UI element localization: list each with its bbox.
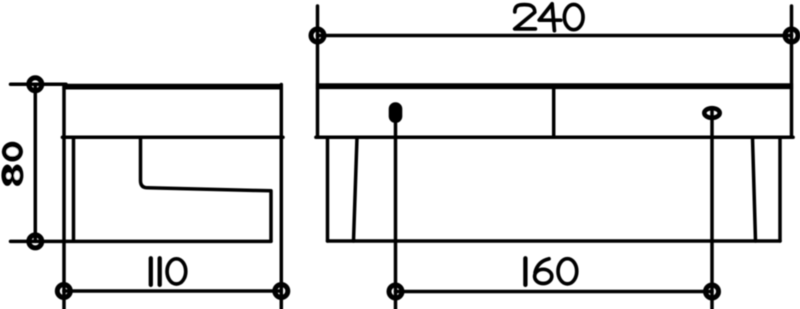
part: rail center divider — [552, 89, 556, 137]
roll holder body: right inner slant — [753, 137, 756, 241]
part: right edge / extension line down to 110 dim — [280, 85, 284, 309]
dim terminator circle 110 right — [275, 285, 288, 298]
extension line top of 80 dim — [11, 83, 67, 87]
dim terminator circle 110 left — [57, 285, 70, 298]
part: bottom edge + extension to 80 dim — [11, 240, 272, 244]
roll holder body: bottom edge — [328, 239, 781, 243]
label 160: digit 6 — [535, 259, 552, 284]
roll holder body: left inner slant — [354, 137, 358, 241]
dim terminator circle 240 left — [311, 29, 324, 42]
part: rail bottom line — [316, 136, 793, 140]
part: thick top shelf line — [62, 84, 283, 90]
dimension 110: dim line — [64, 289, 281, 293]
roll holder body: right outer edge — [778, 137, 782, 241]
label 80 (rotated): digit 8 left lobe body — [1, 165, 13, 186]
label 110: digit 0 — [167, 259, 186, 284]
dim terminator circle 80 top — [29, 78, 42, 91]
roll holder body: left outer edge — [326, 137, 330, 241]
label 110: digit 1 — [158, 258, 162, 285]
extension line right: stub above + down to rail bottom — [790, 6, 794, 137]
dimension 160: dim line — [396, 290, 713, 294]
dimension 240: dim line — [318, 34, 792, 38]
label 240: digit 4 — [539, 4, 561, 31]
dim terminator circle 160 right — [706, 285, 719, 298]
label 80 (rotated): digit 8 right hole — [14, 171, 20, 180]
dim terminator circle 160 left — [389, 285, 402, 298]
label 160: digit 0 — [558, 259, 577, 284]
extension line left: stub above + down to rail bottom — [316, 6, 320, 137]
label 110: digit 1 — [149, 258, 153, 285]
label 240: digit 0 — [564, 4, 583, 29]
extension line from right screw down to 160 dim — [710, 110, 714, 309]
label 80 (rotated): digit 0 hole — [6, 147, 18, 156]
dim terminator circle 240 right — [785, 29, 798, 42]
part: inner back plate line — [72, 137, 76, 241]
dimension 80: vertical dim line — [34, 84, 38, 241]
mounting screw right (ring) — [704, 108, 719, 118]
label 80 (rotated): digit 8 right lobe body — [11, 165, 23, 186]
label 240: digit 2 — [515, 5, 536, 29]
label 80 (rotated): digit 0 body — [2, 142, 23, 162]
extension line from left pin down to 160 dim — [394, 121, 398, 309]
part: rail bottom line — [62, 136, 283, 140]
part: J-profile lip — [141, 137, 272, 241]
label 160: digit 1 — [524, 258, 528, 285]
mounting pin left (filled) — [389, 102, 403, 123]
dim terminator circle 80 bottom — [29, 235, 42, 248]
part: thick top shelf line — [316, 83, 793, 89]
part: left edge / extension line down to 110 dim — [62, 85, 66, 309]
label 80 (rotated): digit 8 left hole — [6, 173, 11, 179]
